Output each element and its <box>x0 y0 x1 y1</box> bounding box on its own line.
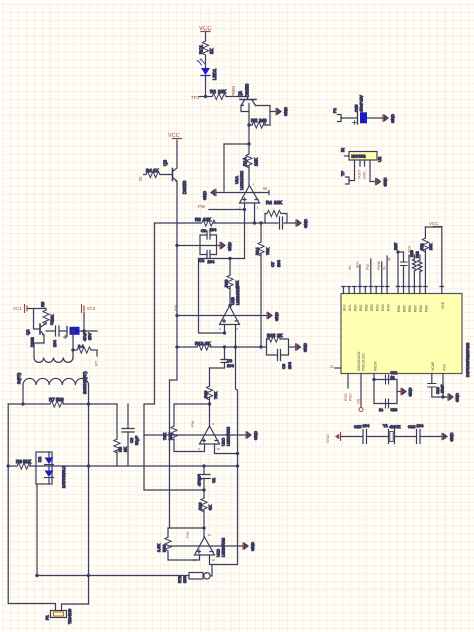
op-amp U1B <box>220 286 241 324</box>
wire U1D feedback loop <box>168 528 205 560</box>
svg-text:GND: GND <box>449 433 454 442</box>
crystal Y1 <box>383 423 401 444</box>
svg-text:PW: PW <box>190 420 195 427</box>
svg-text:1.3K: 1.3K <box>156 543 161 552</box>
junction <box>229 257 231 259</box>
svg-text:470pF: 470pF <box>197 474 202 486</box>
wire RESET pin loop <box>374 374 397 404</box>
ground <box>442 433 454 442</box>
power VCC3 <box>429 221 442 227</box>
svg-text:P1: P1 <box>332 107 337 113</box>
capacitor C10 electrolytic <box>353 95 384 125</box>
svg-text:104: 104 <box>227 363 234 368</box>
wire U1A pin+ <box>254 203 256 223</box>
resistor R31 <box>420 227 433 287</box>
junction <box>260 222 262 224</box>
svg-text:1:(RT): 1:(RT) <box>16 372 21 384</box>
wire bottom bus <box>36 575 189 577</box>
svg-text:OSC2/CLKO: OSC2/CLKO <box>357 351 361 371</box>
svg-text:RA4: RA4 <box>387 304 391 311</box>
ground <box>376 178 388 187</box>
svg-text:LED1: LED1 <box>212 68 217 80</box>
capacitor C16 <box>408 423 424 444</box>
svg-text:TBD4240: TBD4240 <box>68 609 72 624</box>
wire branch left <box>224 143 249 145</box>
wire down left arm <box>199 259 225 334</box>
svg-text:240: 240 <box>259 118 267 123</box>
svg-text:U1A: U1A <box>234 176 239 184</box>
wire rail 490 <box>144 489 204 491</box>
net label PW3 <box>190 420 195 427</box>
resistor RE <box>251 118 267 128</box>
svg-text:C1: C1 <box>211 477 216 483</box>
resistor R1A <box>243 144 259 186</box>
junction <box>236 452 238 454</box>
junction <box>72 330 74 332</box>
transistor Q3 <box>163 140 188 194</box>
svg-text:10: 10 <box>217 447 221 451</box>
ground <box>383 114 395 123</box>
wire mid link 154 <box>144 223 155 490</box>
junction <box>87 465 89 467</box>
svg-text:RT: RT <box>94 360 99 366</box>
svg-text:76K: 76K <box>162 433 167 440</box>
wire VDD feed <box>425 227 441 287</box>
svg-text:DSPIC33FJ12GP202: DSPIC33FJ12GP202 <box>466 343 470 377</box>
svg-text:R16: R16 <box>198 502 203 510</box>
svg-text:C7: C7 <box>270 261 275 267</box>
wire rail 223 <box>155 222 266 224</box>
wire U1A pin- <box>244 203 246 259</box>
connector P1 <box>332 107 357 121</box>
svg-text:GND: GND <box>408 388 413 397</box>
junction <box>204 95 206 97</box>
wire U1D through line <box>168 545 243 547</box>
wire pin RB4 chain <box>398 252 404 287</box>
transformer T1 winding <box>16 371 89 404</box>
svg-text:R4: R4 <box>266 200 272 205</box>
svg-text:AN0: AN0 <box>343 304 347 311</box>
power VSS crystal left <box>325 433 341 444</box>
svg-text:1n: 1n <box>391 376 395 380</box>
svg-text:3K: 3K <box>208 505 213 510</box>
svg-text:TP1: TP1 <box>191 95 200 100</box>
net label RB5 <box>408 245 412 253</box>
svg-text:R5: R5 <box>40 301 45 307</box>
wire rail 466 <box>8 465 237 467</box>
wire VCAP pin <box>432 374 448 398</box>
junction <box>236 465 238 467</box>
svg-text:C4: C4 <box>199 258 205 263</box>
wire loop right low <box>62 604 89 611</box>
svg-text:C9: C9 <box>281 363 286 369</box>
svg-text:R19: R19 <box>162 544 167 552</box>
wire U1B pin- <box>224 325 226 334</box>
svg-text:14: 14 <box>208 533 212 537</box>
ground <box>448 393 460 402</box>
svg-text:3K: 3K <box>205 341 211 346</box>
wire long pins left group <box>360 256 387 287</box>
svg-text:470uF 16V: 470uF 16V <box>360 95 364 112</box>
wire down to gnd arm <box>223 144 225 191</box>
svg-text:Q2: Q2 <box>25 329 30 335</box>
junction <box>397 251 399 253</box>
net label IN <box>138 177 143 182</box>
svg-text:Y1: Y1 <box>383 423 389 428</box>
op-amp U1C <box>200 426 231 446</box>
svg-text:GND: GND <box>250 542 255 551</box>
svg-text:RB7: RB7 <box>414 305 418 312</box>
svg-text:GND: GND <box>363 171 367 179</box>
capacitor C4B <box>46 319 67 347</box>
junction <box>83 330 85 332</box>
svg-text:104: 104 <box>287 362 292 369</box>
fuse F1 <box>45 609 73 624</box>
junction <box>442 396 444 398</box>
svg-text:C16: C16 <box>408 424 416 429</box>
resistor R5 <box>40 301 55 324</box>
ground <box>397 388 413 397</box>
svg-text:PGC: PGC <box>349 393 353 401</box>
svg-text:C12: C12 <box>391 371 398 375</box>
svg-text:1n: 1n <box>379 408 383 412</box>
capacitor C14 <box>428 384 445 395</box>
svg-text:R32: R32 <box>416 251 420 258</box>
junction <box>36 574 38 576</box>
svg-text:GND: GND <box>383 178 388 187</box>
svg-text:C3: C3 <box>201 228 207 233</box>
capacitor C5 electrolytic <box>64 327 98 342</box>
IC U3 bottom pin labels <box>330 351 447 371</box>
svg-text:RA3: RA3 <box>381 304 385 311</box>
svg-text:LM324ADM: LM324ADM <box>236 286 240 305</box>
svg-text:U1D: U1D <box>216 549 221 557</box>
resistor R9 <box>114 404 128 466</box>
svg-text:RB5: RB5 <box>403 305 407 312</box>
wire base rail <box>199 96 212 98</box>
svg-text:U2: U2 <box>377 156 382 162</box>
svg-text:LM324ADM: LM324ADM <box>227 427 231 446</box>
wire MCLR pin <box>347 374 349 389</box>
svg-text:RB0: RB0 <box>354 304 358 311</box>
net label W <box>263 186 268 191</box>
resistor R6 <box>73 344 97 357</box>
svg-text:R14: R14 <box>255 247 260 255</box>
junction <box>208 403 210 405</box>
regulator U2 <box>340 148 382 162</box>
svg-text:LM324ADM: LM324ADM <box>240 171 244 190</box>
wire vcc to R5 <box>29 308 46 310</box>
svg-text:RB4: RB4 <box>397 305 401 312</box>
svg-text:76K: 76K <box>213 392 218 399</box>
svg-text:C13: C13 <box>391 408 398 412</box>
svg-text:D8050: D8050 <box>245 83 250 97</box>
svg-text:GND: GND <box>325 434 330 443</box>
ground <box>246 431 258 440</box>
svg-text:2.4: 2.4 <box>78 344 84 349</box>
junction <box>72 349 74 351</box>
svg-text:R1A: R1A <box>243 157 248 166</box>
svg-text:RB6: RB6 <box>408 305 412 312</box>
svg-text:21: 21 <box>330 365 334 369</box>
resistor R2 <box>210 89 226 100</box>
op-amp U1A <box>234 171 260 203</box>
svg-text:104: 104 <box>276 260 281 267</box>
svg-text:U1C: U1C <box>221 438 226 446</box>
svg-text:VDD: VDD <box>441 301 445 309</box>
svg-text:IN: IN <box>340 148 345 152</box>
net labels U2 <box>358 170 367 179</box>
svg-text:4MHZ: 4MHZ <box>390 424 401 429</box>
svg-text:VC2: VC2 <box>87 306 96 311</box>
resistor R19 <box>156 537 171 552</box>
junction <box>248 124 250 126</box>
svg-text:103: 103 <box>182 576 187 583</box>
svg-text:76K: 76K <box>265 248 270 255</box>
transistor Q2 <box>25 309 46 348</box>
svg-text:PWM: PWM <box>231 86 236 97</box>
wire U1C feedback loop <box>174 404 210 452</box>
wire bus x88 <box>88 404 90 604</box>
junction <box>260 346 262 348</box>
svg-text:PGD: PGD <box>344 393 348 401</box>
resistor R13 <box>224 259 240 306</box>
parallel RC R4/C7 <box>265 200 296 267</box>
svg-text:LM324ADM: LM324ADM <box>222 538 226 557</box>
resistor R1 <box>199 41 215 55</box>
wire IC left pin <box>335 367 341 369</box>
wire R2 to Q1 base <box>226 96 248 98</box>
svg-text:510: 510 <box>56 397 64 402</box>
net label PWM <box>231 86 236 97</box>
svg-text:R4: R4 <box>146 168 152 173</box>
svg-text:RB3: RB3 <box>370 304 374 311</box>
svg-text:C4: C4 <box>49 319 54 325</box>
svg-text:R8: R8 <box>16 459 22 464</box>
svg-text:R31: R31 <box>420 243 424 250</box>
resistor R32 <box>416 251 422 286</box>
svg-text:IN: IN <box>138 177 143 182</box>
svg-text:VCC: VCC <box>429 221 439 226</box>
svg-text:GND: GND <box>390 114 395 123</box>
wire LED to node <box>205 80 207 97</box>
power VC2 <box>82 305 96 313</box>
svg-text:C15: C15 <box>354 424 362 429</box>
svg-text:PW: PW <box>185 531 190 538</box>
svg-text:R3: R3 <box>195 217 201 222</box>
wire Q1 emitter <box>241 104 249 145</box>
junction <box>87 403 89 405</box>
resistor R7 <box>49 397 64 407</box>
junction <box>203 527 205 529</box>
wire U2 pins <box>349 160 376 182</box>
svg-text:104: 104 <box>210 227 217 232</box>
net label PW <box>198 204 206 209</box>
svg-text:R12: R12 <box>195 341 204 346</box>
svg-text:BAT54WS.D: BAT54WS.D <box>61 466 66 488</box>
wire U1C through line <box>144 434 246 436</box>
svg-text:10K: 10K <box>203 217 211 222</box>
svg-text:RST: RST <box>394 242 398 250</box>
net labels above left pins <box>348 257 392 270</box>
svg-text:SK: SK <box>348 265 352 270</box>
svg-text:R15: R15 <box>267 333 276 338</box>
capacitor C15 <box>354 423 370 444</box>
net label OSC <box>357 398 364 411</box>
svg-text:RB9: RB9 <box>425 305 429 312</box>
junction <box>176 346 178 348</box>
junction <box>248 143 250 145</box>
IC U3 body <box>341 294 470 378</box>
net label PW4 <box>185 531 190 538</box>
wire PW feed <box>209 209 245 211</box>
svg-text:VOUT: VOUT <box>358 170 362 179</box>
svg-text:RB1: RB1 <box>359 304 363 311</box>
svg-text:R2: R2 <box>210 89 216 94</box>
svg-text:51pF: 51pF <box>134 435 139 445</box>
wire U1B through line <box>177 315 267 317</box>
power VCC2 <box>13 305 29 313</box>
wire U1C pin+ out <box>215 444 238 454</box>
wire VCC to R1 <box>205 34 207 42</box>
svg-text:PW: PW <box>366 264 370 270</box>
svg-text:C14: C14 <box>436 387 440 394</box>
svg-text:R13: R13 <box>224 279 229 287</box>
resistor R2B <box>144 168 170 178</box>
resistor R3 <box>195 217 216 226</box>
resistor R8 <box>16 459 31 469</box>
ground <box>243 542 255 551</box>
svg-text:IN: IN <box>383 266 387 270</box>
wire Q2 emitter <box>34 343 44 358</box>
power VCC Q3 <box>168 133 182 139</box>
junction <box>203 489 205 491</box>
svg-text:100KHZ(RT): 100KHZ(RT) <box>82 371 87 394</box>
svg-text:25V: 25V <box>87 333 92 340</box>
wire Q1 collector <box>256 106 271 126</box>
svg-text:GND: GND <box>253 431 258 440</box>
svg-text:104: 104 <box>363 423 370 428</box>
svg-text:GND: GND <box>455 393 460 402</box>
junction <box>243 208 245 210</box>
svg-text:VC1: VC1 <box>13 306 22 311</box>
wire coil right arm <box>72 331 74 358</box>
junction <box>229 304 231 306</box>
svg-text:51K: 51K <box>23 459 31 464</box>
ground <box>296 343 308 352</box>
svg-text:PW: PW <box>198 204 206 209</box>
wire U1D pin+ out <box>210 555 238 565</box>
svg-text:OSC1/CLKI: OSC1/CLKI <box>362 353 366 371</box>
node TP1 label <box>191 95 200 100</box>
capacitor C11 <box>394 242 407 265</box>
svg-text:RA2: RA2 <box>376 304 380 311</box>
svg-text:GND: GND <box>227 242 232 251</box>
resistor R16 <box>198 490 213 537</box>
wire cap block rail <box>177 245 220 247</box>
net label PGD <box>344 393 353 401</box>
resistor R17 <box>162 426 177 440</box>
svg-text:RC1: RC1 <box>199 45 204 54</box>
svg-text:AN1: AN1 <box>348 304 352 311</box>
wire gnd to U1A <box>216 192 260 194</box>
svg-text:12: 12 <box>212 558 216 562</box>
wire pin RB5 <box>408 255 410 287</box>
svg-text:104: 104 <box>417 423 424 428</box>
wire 258 link <box>199 258 245 260</box>
svg-text:GND: GND <box>303 343 308 352</box>
ground <box>296 219 308 228</box>
svg-text:RE: RE <box>251 118 257 123</box>
wire crystal rail <box>341 436 443 438</box>
wire RE loop <box>249 124 270 126</box>
wire U1C apex up <box>209 368 211 426</box>
svg-text:1K: 1K <box>153 168 159 173</box>
svg-text:1K: 1K <box>209 48 214 54</box>
ground left <box>202 189 216 200</box>
resistor R12 <box>195 341 211 350</box>
wire diode bottom <box>36 484 38 576</box>
ground <box>276 107 288 116</box>
wire OSC pin <box>360 374 362 408</box>
svg-text:R10: R10 <box>203 390 208 398</box>
svg-text:2K: 2K <box>277 333 283 338</box>
diode pair D2 BAT54 <box>36 452 66 488</box>
svg-text:104: 104 <box>52 340 57 347</box>
transistor Q1 <box>238 83 257 106</box>
svg-text:13K: 13K <box>274 200 282 205</box>
capacitor C12 <box>386 371 398 384</box>
svg-text:13K: 13K <box>254 158 259 166</box>
junction <box>223 332 225 334</box>
junction <box>253 222 255 224</box>
junction <box>87 574 89 576</box>
wire U1B pin+ bus <box>236 325 238 565</box>
wire loop left low <box>8 466 55 611</box>
net label RT <box>94 360 99 366</box>
svg-text:10K: 10K <box>218 89 226 94</box>
svg-text:RB2: RB2 <box>365 304 369 311</box>
junction <box>176 244 178 246</box>
wire sensor link <box>211 565 213 573</box>
terminal U2 <box>340 171 349 184</box>
svg-text:MCLR: MCLR <box>374 361 378 371</box>
ground <box>267 312 279 321</box>
svg-text:MCP1541: MCP1541 <box>352 155 366 159</box>
junction <box>223 346 225 348</box>
capacitor C8 link <box>210 347 235 368</box>
IC U3 top pins <box>342 287 444 294</box>
svg-text:VCAP: VCAP <box>431 361 435 371</box>
svg-text:D8050: D8050 <box>182 180 187 194</box>
power VCC top <box>199 26 212 34</box>
svg-text:R7: R7 <box>49 397 55 402</box>
svg-text:F1: F1 <box>45 615 50 620</box>
thermistor RT1 <box>177 572 212 583</box>
wire left border bus <box>7 404 9 466</box>
resistor R10 <box>203 386 218 404</box>
capacitor C6 <box>122 404 139 466</box>
svg-text:C10: C10 <box>354 104 359 112</box>
svg-text:GND: GND <box>274 312 279 321</box>
wire rail 404 <box>8 403 117 405</box>
resistor R14 <box>255 223 271 347</box>
wire Q3 emitter bus <box>170 184 178 528</box>
svg-text:D2: D2 <box>37 456 42 462</box>
wire R1 to LED <box>205 55 207 68</box>
IC U3 top pin labels <box>343 301 446 312</box>
junction <box>7 465 9 467</box>
